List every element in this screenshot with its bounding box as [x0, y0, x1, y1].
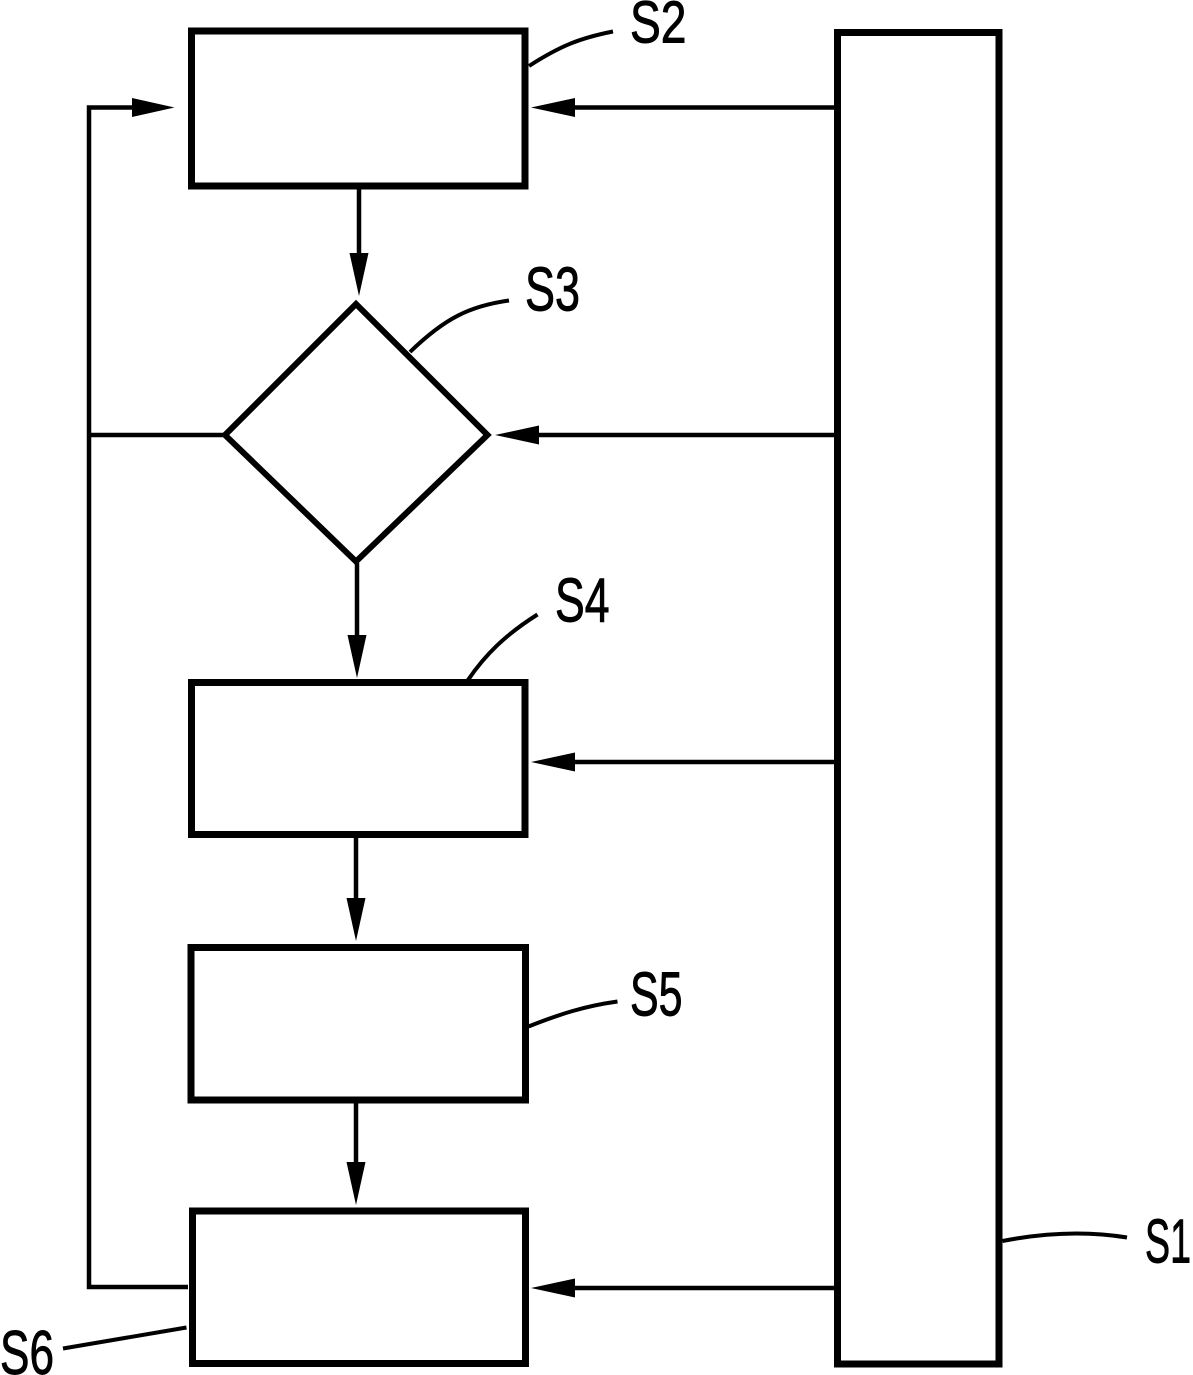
svg-text:S5: S5: [630, 961, 683, 1030]
svg-text:S4: S4: [555, 567, 610, 636]
svg-text:S3: S3: [525, 256, 580, 325]
svg-text:S2: S2: [630, 0, 687, 56]
svg-text:S1: S1: [1145, 1208, 1191, 1277]
svg-text:S6: S6: [0, 1319, 54, 1375]
